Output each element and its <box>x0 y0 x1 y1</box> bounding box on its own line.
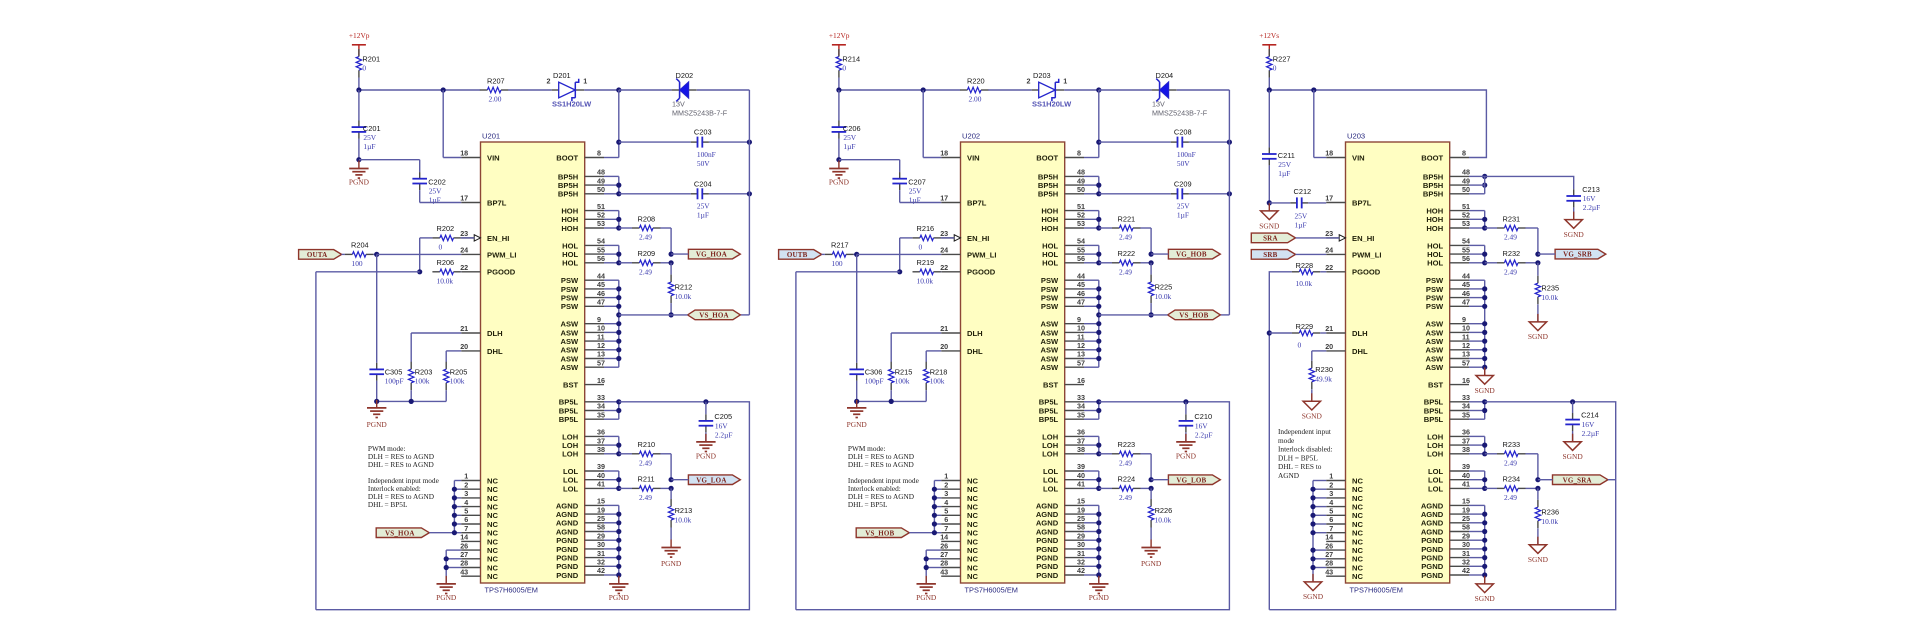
capacitor C305 100pF <box>369 363 403 386</box>
wire R208 to VG chain <box>660 228 671 254</box>
U202 pins LOH (36/37/38) <box>1042 428 1085 459</box>
diode D202 zener 13V <box>672 71 728 117</box>
wire R207 to D201 <box>988 89 1031 91</box>
junction NC bus pin 3 <box>932 495 937 500</box>
svg-text:17: 17 <box>1325 194 1333 203</box>
svg-text:mode: mode <box>1278 436 1294 445</box>
junction BP5L 34 <box>616 408 621 413</box>
svg-text:SGND: SGND <box>1475 386 1496 395</box>
ground PGND (IC) <box>1089 576 1110 602</box>
svg-text:4: 4 <box>1329 498 1333 507</box>
svg-text:BP5L: BP5L <box>559 406 579 415</box>
svg-text:PGND: PGND <box>1141 559 1162 568</box>
IC U201 TPS7H6005/EM <box>481 132 585 595</box>
svg-text:PGND: PGND <box>1421 562 1443 571</box>
wire BOOT to C203 column <box>1084 90 1099 158</box>
svg-text:AGND: AGND <box>1036 519 1059 528</box>
wire C201 to ground node <box>838 139 840 160</box>
svg-text:HOL: HOL <box>562 259 578 268</box>
diode D201 SS1H20LW <box>547 71 593 108</box>
svg-text:LOH: LOH <box>1042 441 1058 450</box>
svg-text:100pF: 100pF <box>385 376 404 385</box>
U203 pins PWM_LI (24) <box>1325 246 1381 260</box>
svg-text:BP7L: BP7L <box>967 198 987 207</box>
svg-text:10.0k: 10.0k <box>437 276 454 285</box>
svg-text:49: 49 <box>1462 176 1470 185</box>
wire HOH bundle <box>604 211 619 228</box>
junction NC bus 6 <box>1310 521 1315 526</box>
ground SGND (SW bus) <box>1475 368 1496 395</box>
resistor R201 <box>356 49 380 78</box>
svg-text:+12Vs: +12Vs <box>1259 31 1279 40</box>
wire NC pins 1-7 bus <box>454 481 461 533</box>
svg-text:TPS7H6005/EM: TPS7H6005/EM <box>485 586 538 595</box>
svg-text:DHL: DHL <box>1352 347 1368 356</box>
svg-text:2.00: 2.00 <box>489 95 502 104</box>
wire junction to D202 <box>619 89 672 91</box>
junction LOH 37 <box>1096 443 1101 448</box>
svg-text:47: 47 <box>1462 298 1470 307</box>
wire R228 to PGOOD <box>1320 271 1326 273</box>
wire C201 to ground node <box>358 139 360 160</box>
junction SW bus 9 (block3) <box>1482 321 1487 326</box>
wire right vertical <box>740 90 749 315</box>
net flag VG_SRA <box>1553 475 1608 485</box>
junction NC bus pin 27 <box>924 556 929 561</box>
svg-text:1µF: 1µF <box>1177 211 1189 220</box>
svg-text:BP5H: BP5H <box>1423 190 1443 199</box>
junction LOL 41 <box>616 486 621 491</box>
U203 pins ASW (9/10/11/12/13/57) <box>1425 315 1470 372</box>
svg-text:PSW: PSW <box>561 285 579 294</box>
svg-text:HOL: HOL <box>1427 250 1443 259</box>
wire SRB to PWM_LI <box>1296 253 1327 255</box>
svg-text:HOH: HOH <box>1426 207 1443 216</box>
svg-text:44: 44 <box>1077 271 1085 280</box>
U201 pins BP7L (17) <box>460 194 507 208</box>
svg-text:14: 14 <box>1325 533 1333 542</box>
svg-text:20: 20 <box>1325 342 1333 351</box>
svg-text:R210: R210 <box>638 440 656 449</box>
svg-text:12: 12 <box>597 341 605 350</box>
svg-text:39: 39 <box>597 462 605 471</box>
wire R234 to node <box>1526 487 1538 489</box>
wire PWM node to PWM_LI <box>857 253 942 255</box>
wire R208 to VG chain <box>1140 228 1151 254</box>
svg-text:32: 32 <box>597 558 605 567</box>
svg-text:34: 34 <box>1077 402 1085 411</box>
svg-text:NC: NC <box>487 503 498 512</box>
junction SW bus 47 <box>616 304 621 309</box>
junction HOH 52 (block3) <box>1482 217 1487 222</box>
svg-text:NC: NC <box>1352 546 1363 555</box>
svg-text:100k: 100k <box>930 376 945 385</box>
U201 pins HOH (51/52/53) <box>561 202 605 233</box>
U202 pins HOH (51/52/53) <box>1041 202 1085 233</box>
svg-text:R212: R212 <box>675 282 693 291</box>
svg-text:VG_LOA: VG_LOA <box>696 476 726 484</box>
text annotation PWM mode <box>368 444 434 469</box>
svg-text:C212: C212 <box>1294 187 1312 196</box>
svg-text:10.0k: 10.0k <box>917 276 934 285</box>
svg-text:54: 54 <box>1462 237 1470 246</box>
svg-text:100k: 100k <box>415 376 430 385</box>
svg-text:2: 2 <box>1027 76 1031 85</box>
svg-text:ASW: ASW <box>1425 346 1444 355</box>
svg-text:PGND: PGND <box>1036 536 1058 545</box>
wire R202 to EN_HI <box>461 237 474 239</box>
U201 pins PSW (44/45/46/47) <box>561 271 605 311</box>
svg-text:BP5H: BP5H <box>1423 172 1443 181</box>
U203 pins PSW (44/45/46/47) <box>1426 271 1470 311</box>
svg-text:LOH: LOH <box>1427 450 1443 459</box>
svg-text:R226: R226 <box>1155 506 1173 515</box>
svg-text:31: 31 <box>1077 549 1085 558</box>
svg-text:DLH: DLH <box>967 329 983 338</box>
ground SGND (C211) <box>1259 203 1280 230</box>
svg-text:PGND: PGND <box>1036 545 1058 554</box>
wire PWM node down to C305 <box>376 254 378 362</box>
junction GND bus 29 <box>616 538 621 543</box>
U201 pins AGND (15/19/25/58) <box>556 497 605 537</box>
svg-text:44: 44 <box>597 271 605 280</box>
resistor R221 <box>1099 214 1141 241</box>
svg-text:39: 39 <box>1462 462 1470 471</box>
net flag SRB <box>1251 250 1295 260</box>
svg-text:57: 57 <box>1077 358 1085 367</box>
wire BP5L bundle <box>604 402 619 419</box>
wire C305 to gnd row <box>856 381 858 402</box>
svg-text:LOL: LOL <box>563 476 579 485</box>
svg-text:C206: C206 <box>843 124 861 133</box>
U201 pins NC (1/2/3/4/5/6/7/14/26/27/28/43) <box>460 472 498 581</box>
svg-text:56: 56 <box>1462 254 1470 263</box>
U203 pins PGOOD (22) <box>1325 263 1381 277</box>
svg-text:23: 23 <box>460 229 468 238</box>
svg-text:LOL: LOL <box>1428 476 1444 485</box>
svg-text:1µF: 1µF <box>1278 169 1290 178</box>
svg-text:C210: C210 <box>1194 412 1212 421</box>
svg-text:PSW: PSW <box>1426 276 1444 285</box>
svg-text:HOL: HOL <box>562 241 578 250</box>
svg-text:DHL = RES to AGND: DHL = RES to AGND <box>368 460 434 469</box>
svg-text:10.0k: 10.0k <box>1296 279 1313 288</box>
U201 pins LOH (36/37/38) <box>562 428 605 459</box>
wire C214 to ground <box>1572 431 1574 442</box>
svg-text:32: 32 <box>1077 558 1085 567</box>
svg-text:R221: R221 <box>1118 214 1136 223</box>
svg-text:LOH: LOH <box>1427 432 1443 441</box>
resistor R231 <box>1485 214 1526 241</box>
wire R235 to ground <box>1537 304 1539 322</box>
capacitor C210 16V 2.2uF <box>1179 402 1213 440</box>
U202 pins BST (16) <box>1043 376 1085 390</box>
svg-text:28: 28 <box>460 559 468 568</box>
resistor R235 <box>1535 263 1559 304</box>
svg-text:1µF: 1µF <box>1295 221 1307 230</box>
svg-text:22: 22 <box>940 263 948 272</box>
net flag OUTB <box>779 250 822 260</box>
svg-text:NC: NC <box>1352 520 1363 529</box>
svg-text:R206: R206 <box>437 258 455 267</box>
svg-text:PSW: PSW <box>1426 294 1444 303</box>
resistor R234 <box>1485 475 1526 502</box>
svg-text:9: 9 <box>597 315 601 324</box>
svg-text:PGND: PGND <box>1421 554 1443 563</box>
junction gnd row C305 <box>374 399 379 404</box>
svg-text:ASW: ASW <box>1425 354 1444 363</box>
svg-text:13: 13 <box>597 350 605 359</box>
svg-text:36: 36 <box>1462 428 1470 437</box>
svg-text:R229: R229 <box>1296 322 1314 331</box>
svg-text:BP5L: BP5L <box>1424 415 1444 424</box>
svg-text:LOL: LOL <box>1043 476 1059 485</box>
net flag SRA <box>1251 233 1295 243</box>
svg-text:BP5L: BP5L <box>1039 415 1059 424</box>
svg-text:HOL: HOL <box>562 250 578 259</box>
svg-text:NC: NC <box>967 572 978 581</box>
svg-text:6: 6 <box>464 515 468 524</box>
U202 pins HOL (54/55/56) <box>1042 237 1085 268</box>
svg-text:46: 46 <box>1077 289 1085 298</box>
svg-text:TPS7H6005/EM: TPS7H6005/EM <box>965 586 1018 595</box>
resistor R229 <box>1292 322 1321 349</box>
svg-text:6: 6 <box>1329 515 1333 524</box>
wire HOH bundle (block3) <box>1469 211 1485 228</box>
wire R236 to ground <box>1537 528 1539 544</box>
svg-text:BOOT: BOOT <box>1421 153 1443 162</box>
svg-text:DLH: DLH <box>1352 329 1368 338</box>
junction HOL 55 <box>1096 252 1101 257</box>
svg-text:PGND: PGND <box>661 559 682 568</box>
resistor R226 <box>1148 488 1172 539</box>
svg-text:PGND: PGND <box>1421 571 1443 580</box>
wire SW bus to VS flag <box>619 314 688 316</box>
wire VG node to flag <box>1151 253 1168 255</box>
junction R232 node <box>1535 260 1540 265</box>
wire R230 to ground <box>1311 389 1313 401</box>
svg-text:AGND: AGND <box>1421 519 1444 528</box>
ground PGND (R213) <box>661 540 682 569</box>
net flag VS_HOA (switch node) <box>688 310 741 320</box>
svg-text:DHL = RES to: DHL = RES to <box>1278 462 1322 471</box>
resistor R216 <box>913 224 942 251</box>
junction GND bus 32 <box>1096 564 1101 569</box>
junction LOH 38 (block3) <box>1482 451 1487 456</box>
wire DHL <box>926 351 941 362</box>
svg-text:NC: NC <box>1352 537 1363 546</box>
wire R206 to PGOOD <box>940 271 942 273</box>
svg-text:25: 25 <box>1462 514 1470 523</box>
ground SGND (NC) <box>1303 574 1324 601</box>
wire PSW/ASW bundle <box>1084 280 1099 367</box>
svg-text:21: 21 <box>940 324 948 333</box>
U202 pins NC (1/2/3/4/5/6/7/14/26/27/28/43) <box>940 472 978 581</box>
resistor R222 <box>1099 249 1141 276</box>
svg-text:LOL: LOL <box>1428 484 1444 493</box>
svg-text:36: 36 <box>1077 428 1085 437</box>
svg-text:R227: R227 <box>1273 55 1291 64</box>
svg-text:LOH: LOH <box>1427 441 1443 450</box>
svg-text:52: 52 <box>1462 211 1470 220</box>
svg-text:R213: R213 <box>675 506 693 515</box>
wire R233 to VG_SRA chain <box>1525 454 1538 480</box>
svg-text:BP5L: BP5L <box>1424 398 1444 407</box>
junction C205 tap <box>703 399 708 404</box>
svg-text:NC: NC <box>487 563 498 572</box>
svg-text:34: 34 <box>597 402 605 411</box>
wire gnd row <box>377 400 447 402</box>
svg-text:53: 53 <box>1077 219 1085 228</box>
wire D201 to junction <box>584 89 619 91</box>
svg-text:AGND: AGND <box>556 527 579 536</box>
svg-text:8: 8 <box>597 149 601 158</box>
svg-text:10.0k: 10.0k <box>675 292 692 301</box>
junction HOH 52 <box>1096 217 1101 222</box>
svg-text:7: 7 <box>1329 524 1333 533</box>
svg-text:LOL: LOL <box>1043 467 1059 476</box>
wire PGOOD node to loop left <box>316 272 420 610</box>
wire BP5H bundle <box>1084 176 1099 193</box>
junction HOL 56 <box>616 260 621 265</box>
svg-text:VS_HOA: VS_HOA <box>699 312 729 320</box>
svg-text:ASW: ASW <box>560 346 579 355</box>
wire VG_SRB node to flag <box>1538 253 1555 255</box>
svg-text:VIN: VIN <box>967 153 980 162</box>
net flag OUTA <box>299 250 342 260</box>
svg-text:40: 40 <box>1462 471 1470 480</box>
svg-text:C202: C202 <box>428 178 446 187</box>
svg-text:R225: R225 <box>1155 282 1173 291</box>
U202 pins BP7L (17) <box>940 194 987 208</box>
svg-text:R223: R223 <box>1118 440 1136 449</box>
svg-text:45: 45 <box>1462 280 1470 289</box>
svg-text:52: 52 <box>1077 211 1085 220</box>
junction NC bus pin 7 <box>452 530 457 535</box>
U202 pins EN_HI (23) <box>940 229 989 243</box>
junction SW bus 11 <box>1096 339 1101 344</box>
ground SGND (IC block3) <box>1475 576 1496 603</box>
wire ground node to C202 <box>359 160 420 172</box>
svg-text:100pF: 100pF <box>865 376 884 385</box>
junction GND bus 19 <box>1096 511 1101 516</box>
wire R202 left to node column <box>420 238 433 272</box>
capacitor C205 16V 2.2uF <box>699 402 733 440</box>
svg-text:C205: C205 <box>714 412 732 421</box>
wire D202 to right vertical <box>1177 89 1230 91</box>
wire D202 to right vertical <box>697 89 750 91</box>
svg-text:100: 100 <box>832 259 843 268</box>
wire BP5L rail loop <box>316 402 750 610</box>
junction NC bus pin 27 <box>444 556 449 561</box>
svg-text:20: 20 <box>940 342 948 351</box>
U203 pins AGND (15/19/25/58) <box>1421 497 1470 537</box>
svg-text:NC: NC <box>487 476 498 485</box>
svg-text:36: 36 <box>597 428 605 437</box>
wire LOL bundle <box>1084 471 1099 488</box>
svg-text:U202: U202 <box>962 132 980 141</box>
U201 pins PGOOD (22) <box>460 263 516 277</box>
junction R234 node <box>1535 486 1540 491</box>
svg-text:R228: R228 <box>1296 261 1314 270</box>
svg-text:11: 11 <box>1077 332 1085 341</box>
diode D203 SS1H20LW <box>1027 71 1073 108</box>
capacitor C202 25V 1uF <box>412 172 445 204</box>
svg-text:ASW: ASW <box>560 354 579 363</box>
junction right vertical C203 <box>747 140 752 145</box>
U201 pins LOL (39/40/41) <box>563 462 605 493</box>
ground PGND (IC) <box>609 576 630 602</box>
svg-text:PGND: PGND <box>1421 545 1443 554</box>
U203 pins VIN (18) <box>1325 149 1364 163</box>
svg-text:R232: R232 <box>1503 249 1521 258</box>
junction BP5H 50 <box>1096 191 1101 196</box>
svg-text:16: 16 <box>1077 376 1085 385</box>
junction NC bus pin 2 <box>932 487 937 492</box>
svg-text:AGND: AGND <box>556 519 579 528</box>
resistor R233 <box>1485 440 1526 467</box>
junction SW bus 9 <box>1096 321 1101 326</box>
junction SW bus 10 <box>1096 330 1101 335</box>
svg-text:PGOOD: PGOOD <box>1352 268 1381 277</box>
svg-text:SGND: SGND <box>1528 555 1549 564</box>
U202 pins BP5H (48/49/50) <box>1038 168 1085 199</box>
svg-text:PGND: PGND <box>1176 451 1197 460</box>
wire PSW/ASW bundle <box>604 280 619 367</box>
svg-text:NC: NC <box>487 511 498 520</box>
svg-text:PGND: PGND <box>556 536 578 545</box>
junction BP5H 48 <box>1482 174 1487 179</box>
svg-text:9: 9 <box>1077 315 1081 324</box>
U202 pins DHL (20) <box>940 342 983 356</box>
svg-text:PGND: PGND <box>696 451 717 460</box>
svg-text:R215: R215 <box>895 367 913 376</box>
svg-text:AGND: AGND <box>1421 510 1444 519</box>
svg-text:BP5L: BP5L <box>559 415 579 424</box>
svg-text:R220: R220 <box>967 76 985 85</box>
U203 pins BP5L (33/34/35) <box>1424 393 1470 424</box>
svg-text:PSW: PSW <box>1041 285 1059 294</box>
svg-text:49: 49 <box>1077 176 1085 185</box>
capacitor C209 25V 1uF <box>1099 179 1192 219</box>
svg-text:ASW: ASW <box>1425 328 1444 337</box>
U203 pins BOOT (8) <box>1421 149 1469 163</box>
svg-text:PGND: PGND <box>847 420 868 429</box>
svg-text:2.00: 2.00 <box>969 95 982 104</box>
junction VG node <box>1149 252 1154 257</box>
svg-text:HOL: HOL <box>1042 250 1058 259</box>
junction C203 row <box>1096 140 1101 145</box>
svg-text:C305: C305 <box>385 367 403 376</box>
junction SW bus 12 <box>616 347 621 352</box>
resistor R219 <box>913 258 942 285</box>
junction GND bus 32 (block3) <box>1482 564 1487 569</box>
net flag VG_SRB <box>1555 249 1606 259</box>
junction GND bus 31 <box>616 555 621 560</box>
svg-text:25V: 25V <box>1278 160 1291 169</box>
wire C213 to ground <box>1573 207 1575 219</box>
svg-text:HOH: HOH <box>1041 215 1058 224</box>
ground SGND (R236) <box>1528 537 1549 564</box>
svg-text:3: 3 <box>1329 489 1333 498</box>
svg-text:25V: 25V <box>843 133 856 142</box>
junction PWM node <box>374 252 379 257</box>
U202 pins BOOT (8) <box>1036 149 1084 163</box>
svg-text:18: 18 <box>460 149 468 158</box>
svg-text:16: 16 <box>1462 376 1470 385</box>
wire VIN drop <box>923 90 941 158</box>
U201 pins EN_HI (23) <box>460 229 509 243</box>
